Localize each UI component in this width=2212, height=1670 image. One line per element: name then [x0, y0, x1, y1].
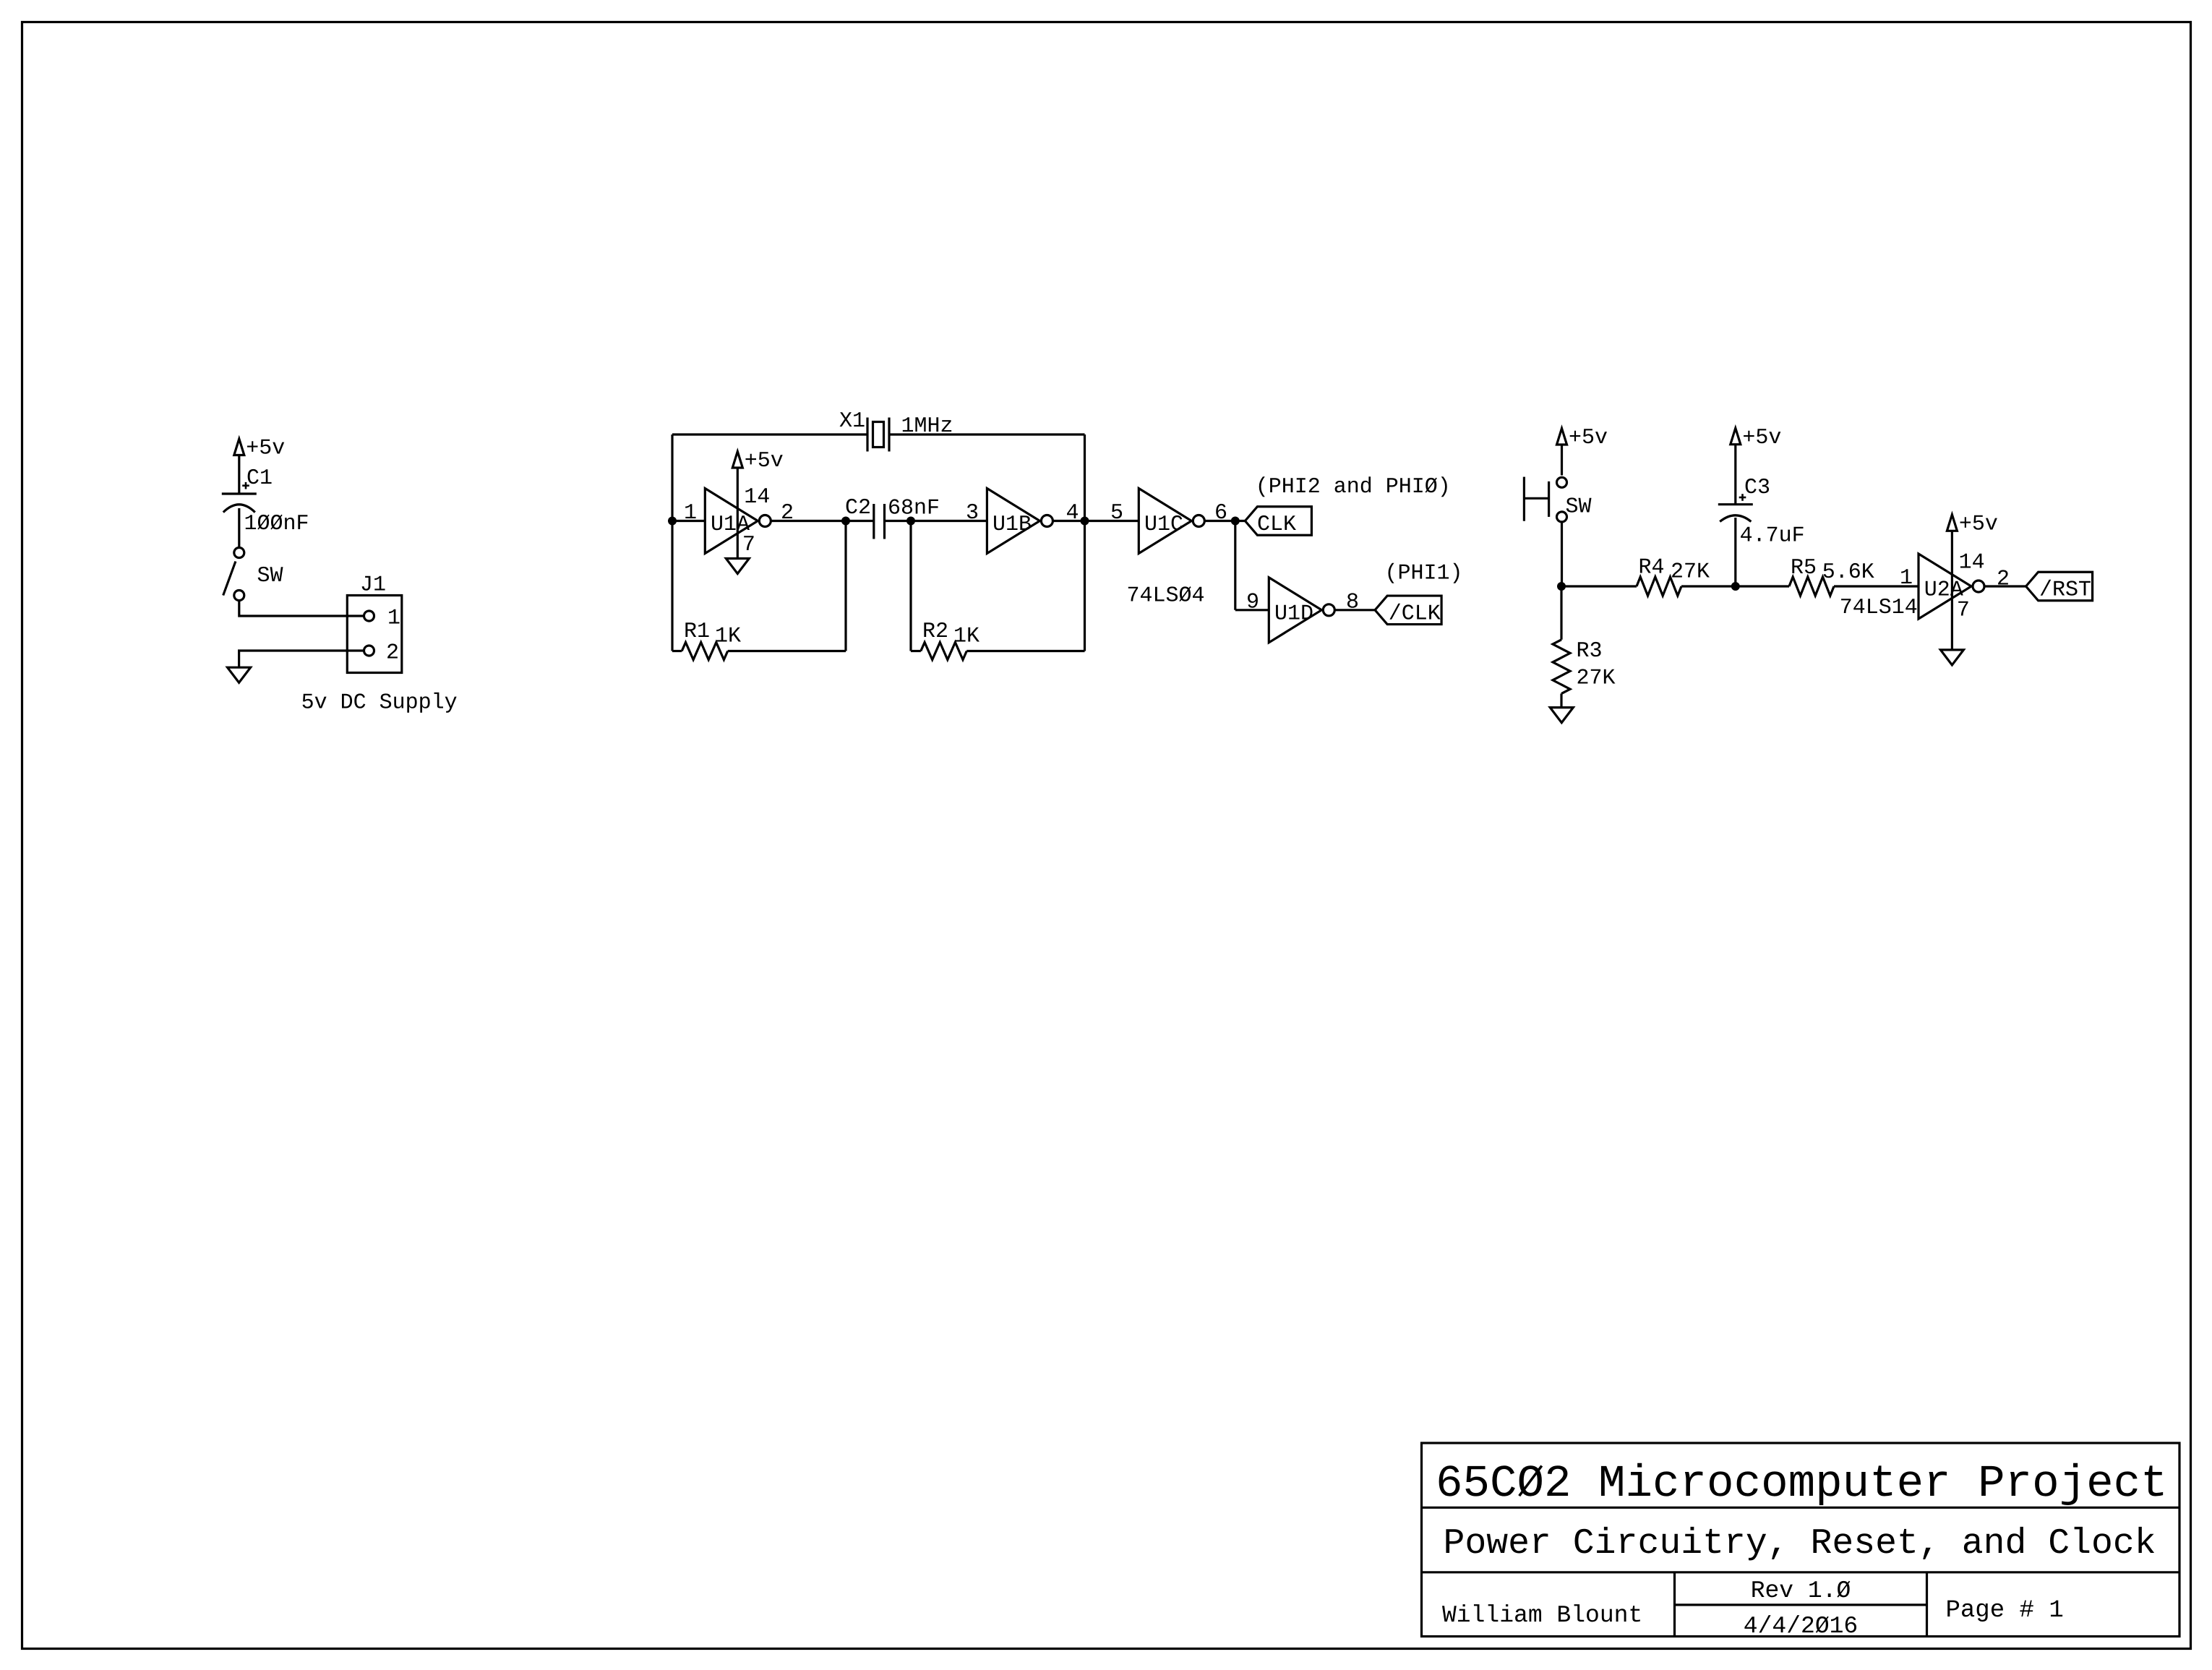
svg-text:/RST: /RST — [2039, 578, 2091, 603]
svg-text:2: 2 — [386, 641, 399, 666]
svg-text:1K: 1K — [953, 625, 979, 649]
svg-text:5.6K: 5.6K — [1822, 560, 1874, 585]
svg-text:1: 1 — [387, 607, 400, 631]
svg-text:R2: R2 — [922, 620, 948, 644]
svg-text:1: 1 — [684, 501, 697, 526]
svg-text:4: 4 — [1066, 501, 1079, 526]
svg-text:R3: R3 — [1577, 639, 1603, 664]
svg-text:74LS14: 74LS14 — [1840, 596, 1918, 620]
svg-text:+5v: +5v — [246, 437, 285, 461]
svg-text:C1: C1 — [247, 466, 273, 491]
svg-text:X1: X1 — [839, 409, 865, 434]
svg-text:R1: R1 — [684, 620, 710, 644]
svg-text:4.7uF: 4.7uF — [1740, 524, 1805, 549]
svg-text:6: 6 — [1214, 501, 1227, 526]
svg-text:R4: R4 — [1639, 556, 1665, 581]
svg-text:+5v: +5v — [1959, 512, 1998, 536]
svg-text:1K: 1K — [715, 625, 741, 649]
svg-text:1MHz: 1MHz — [901, 414, 953, 439]
svg-text:C2: C2 — [845, 496, 871, 521]
svg-text:4/4/2Ø16: 4/4/2Ø16 — [1744, 1613, 1858, 1640]
svg-text:9: 9 — [1246, 590, 1259, 615]
svg-text:1: 1 — [1900, 566, 1913, 591]
svg-text:+5v: +5v — [1569, 426, 1608, 450]
svg-text:U1C: U1C — [1144, 513, 1183, 537]
svg-text:/CLK: /CLK — [1389, 601, 1441, 626]
svg-text:8: 8 — [1346, 590, 1359, 615]
svg-text:J1: J1 — [360, 573, 386, 597]
svg-text:Rev 1.Ø: Rev 1.Ø — [1751, 1577, 1851, 1604]
svg-text:+5v: +5v — [1742, 426, 1781, 450]
svg-text:5v DC Supply: 5v DC Supply — [301, 691, 458, 716]
svg-text:5: 5 — [1110, 501, 1123, 526]
svg-text:74LSØ4: 74LSØ4 — [1127, 584, 1205, 609]
svg-text:Power Circuitry, Reset, and Cl: Power Circuitry, Reset, and Clock — [1444, 1523, 2156, 1564]
svg-text:1ØØnF: 1ØØnF — [244, 512, 309, 536]
svg-text:R5: R5 — [1791, 556, 1817, 581]
svg-text:2: 2 — [1997, 568, 2010, 592]
svg-text:3: 3 — [966, 501, 979, 526]
svg-text:14: 14 — [1959, 551, 1985, 575]
svg-text:William Blount: William Blount — [1442, 1602, 1642, 1629]
svg-text:14: 14 — [744, 485, 770, 510]
svg-text:68nF: 68nF — [888, 496, 940, 521]
svg-text:7: 7 — [742, 533, 755, 557]
svg-text:27K: 27K — [1577, 667, 1616, 691]
svg-text:(PHI1): (PHI1) — [1385, 562, 1463, 586]
svg-text:+5v: +5v — [745, 449, 784, 474]
svg-text:SW: SW — [257, 564, 283, 588]
svg-text:U1B: U1B — [993, 513, 1032, 537]
svg-text:65CØ2 Microcomputer Project: 65CØ2 Microcomputer Project — [1436, 1458, 2168, 1510]
svg-text:CLK: CLK — [1257, 513, 1296, 537]
svg-text:C3: C3 — [1744, 476, 1770, 500]
svg-text:27K: 27K — [1671, 560, 1710, 585]
svg-text:Page # 1: Page # 1 — [1946, 1597, 2064, 1624]
svg-text:(PHI2 and PHIØ): (PHI2 and PHIØ) — [1256, 475, 1451, 500]
svg-text:7: 7 — [1957, 599, 1970, 623]
svg-text:U1D: U1D — [1274, 601, 1313, 626]
svg-text:2: 2 — [781, 501, 794, 526]
svg-text:SW: SW — [1566, 495, 1592, 520]
